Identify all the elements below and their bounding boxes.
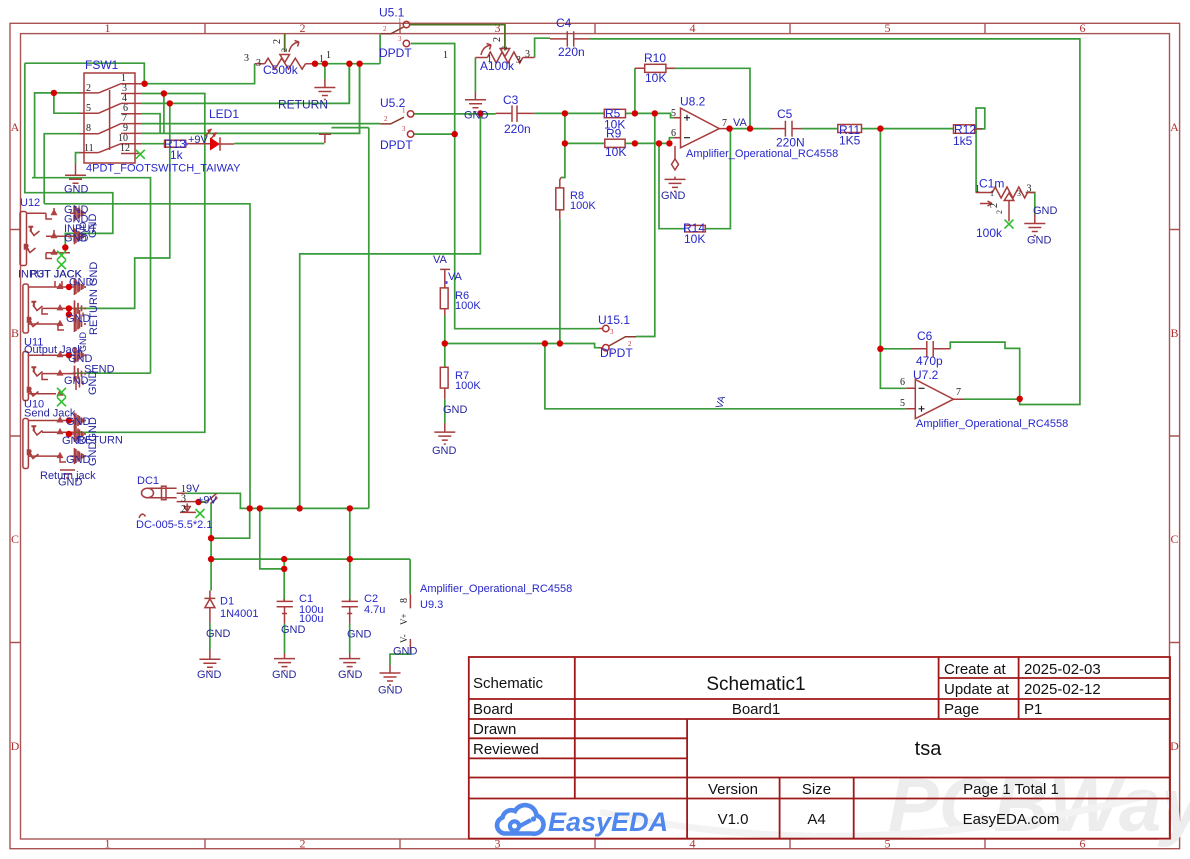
svg-text:GND: GND	[1027, 235, 1052, 247]
wire FSW1 pin11 to GND	[76, 153, 81, 164]
capacitor C5	[771, 121, 802, 137]
svg-text:VA: VA	[448, 271, 463, 283]
wire U5.1 pin3 net to U15.1 pin3	[411, 44, 599, 329]
jack U10	[23, 348, 83, 401]
resistor R8	[556, 188, 564, 210]
svg-text:VA: VA	[714, 394, 728, 409]
svg-text:GND: GND	[66, 313, 91, 325]
potentiometer C500k	[255, 58, 315, 69]
svg-text:T: T	[32, 427, 36, 433]
FSW1 right pin stubs	[121, 84, 141, 154]
svg-text:100K: 100K	[455, 300, 481, 312]
svg-text:VA: VA	[433, 254, 448, 266]
svg-text:2: 2	[300, 21, 306, 35]
svg-text:C6: C6	[917, 329, 933, 343]
wire FSW1 pin10 to R13	[141, 143, 165, 145]
svg-text:Create at: Create at	[944, 661, 1007, 678]
svg-text:+9V: +9V	[197, 495, 218, 507]
wire U5.2 pin3 stub	[414, 133, 455, 135]
wire input row y=204 to +9V rail	[44, 204, 250, 509]
svg-text:EasyEDA: EasyEDA	[548, 807, 668, 837]
resistor R11	[838, 125, 862, 133]
op-amp U8.2	[681, 108, 720, 148]
wire D1 lower / GND segments	[210, 623, 350, 654]
svg-text:Board: Board	[473, 701, 513, 718]
svg-text:GND: GND	[464, 110, 489, 122]
svg-text:100K: 100K	[570, 200, 596, 212]
svg-text:2: 2	[383, 25, 387, 33]
svg-text:U7.2: U7.2	[913, 368, 939, 382]
svg-text:1: 1	[398, 17, 402, 25]
svg-text:A: A	[11, 120, 20, 134]
wire C5 right to R11	[801, 128, 838, 130]
RETURN GND symbol under C500k	[314, 79, 335, 100]
wire pin4 branch down to U11 tip	[73, 103, 170, 308]
svg-text:T: T	[32, 302, 36, 308]
op-amp U7.2	[915, 380, 953, 419]
VA net flag at R6	[440, 269, 450, 271]
svg-text:6: 6	[900, 377, 905, 388]
wire U5.2 pin1 to C3	[414, 113, 496, 115]
svg-text:220n: 220n	[504, 122, 531, 136]
svg-text:U8.2: U8.2	[680, 95, 706, 109]
frame ticks right	[1170, 230, 1180, 643]
capacitor C1	[277, 599, 293, 624]
svg-text:4.7u: 4.7u	[364, 604, 385, 616]
svg-text:4PDT_FOOTSWITCH_TAIWAY: 4PDT_FOOTSWITCH_TAIWAY	[86, 163, 241, 175]
resistor R5	[604, 109, 625, 117]
svg-text:100k: 100k	[976, 226, 1003, 240]
svg-text:GND: GND	[338, 669, 363, 681]
frame ticks top	[205, 23, 985, 33]
LED1 leads and emission arrows	[199, 137, 234, 151]
svg-text:1: 1	[443, 50, 448, 61]
svg-text:Amplifier_Operational_RC4558: Amplifier_Operational_RC4558	[420, 583, 572, 595]
svg-text:7: 7	[956, 387, 961, 398]
GND symbol R7	[434, 423, 455, 444]
wire R10 right to U8.2 output node	[666, 68, 750, 128]
svg-text:1: 1	[975, 184, 980, 195]
svg-text:A100k: A100k	[480, 59, 515, 73]
svg-text:1: 1	[610, 347, 614, 355]
wire FSW1 pin3 row down-left rail to RETURN jack	[73, 94, 205, 433]
svg-text:D: D	[11, 739, 20, 753]
svg-text:D1: D1	[220, 596, 234, 608]
svg-text:A: A	[1170, 120, 1179, 134]
switch U15.1	[603, 325, 637, 351]
svg-text:1: 1	[105, 21, 111, 35]
svg-text:DPDT: DPDT	[380, 138, 413, 152]
svg-text:VA: VA	[733, 117, 748, 129]
svg-text:DPDT: DPDT	[600, 346, 633, 360]
wire FSW1 pin6 link to pin9	[141, 114, 160, 134]
svg-text:470p: 470p	[916, 354, 943, 368]
svg-text:2025-02-03: 2025-02-03	[1024, 661, 1101, 678]
svg-text:FSW1: FSW1	[85, 58, 119, 72]
+9V flag	[207, 494, 218, 504]
svg-text:3: 3	[244, 53, 249, 64]
no-connect X marks	[57, 150, 1014, 518]
wire C4 output loop to U7.2	[590, 39, 1080, 405]
svg-text:C500k: C500k	[263, 63, 299, 77]
wire R6/R7 node row to U15.1 pin1	[445, 344, 599, 348]
wire FSW1 pin8 down to wire1	[44, 134, 80, 204]
svg-text:U9.3: U9.3	[420, 599, 443, 611]
DC1 barrel connector	[142, 488, 154, 498]
svg-text:2: 2	[300, 837, 306, 851]
wire C1m pin3 to GND	[1030, 193, 1035, 215]
svg-text:3: 3	[525, 49, 530, 60]
svg-text:GND: GND	[1033, 205, 1058, 217]
wire FSW1 pin7 row to U5.2 pin2	[141, 123, 380, 125]
svg-text:2: 2	[492, 37, 503, 42]
svg-text:3: 3	[610, 328, 614, 336]
svg-text:GND: GND	[378, 685, 403, 697]
svg-text:220n: 220n	[558, 45, 585, 59]
svg-text:GND: GND	[64, 184, 89, 196]
wire FSW1 pin4 row (RETURN)	[141, 64, 349, 104]
svg-text:Page 1 Total 1: Page 1 Total 1	[963, 781, 1059, 798]
GND symbol A100k	[465, 92, 486, 112]
svg-text:B: B	[1170, 326, 1178, 340]
svg-text:GND: GND	[62, 435, 87, 447]
A100k curl arrow	[481, 44, 491, 56]
resistor R13	[165, 140, 186, 147]
svg-text:U12: U12	[20, 197, 40, 209]
svg-text:6: 6	[1080, 21, 1086, 35]
capacitor C3	[496, 105, 535, 122]
svg-text:GND: GND	[87, 214, 99, 239]
svg-text:5: 5	[671, 108, 676, 119]
GND symbol C1m	[1024, 215, 1045, 236]
svg-text:2: 2	[86, 83, 91, 94]
svg-text:1N4001: 1N4001	[220, 608, 259, 620]
resistor R7	[440, 367, 448, 388]
svg-text:Page: Page	[944, 701, 979, 718]
LED emission arrowheads	[207, 129, 217, 137]
EasyEDA logo	[497, 805, 668, 837]
svg-text:Version: Version	[708, 781, 758, 798]
svg-text:Reviewed: Reviewed	[473, 741, 539, 758]
svg-text:T: T	[29, 227, 33, 233]
wire RETURN net label wire	[348, 64, 350, 104]
svg-text:1k: 1k	[170, 148, 184, 162]
diode D1	[204, 591, 215, 623]
svg-text:C5: C5	[777, 107, 793, 121]
svg-text:10K: 10K	[684, 232, 705, 246]
svg-text:3: 3	[1027, 184, 1032, 195]
svg-text:V-: V-	[399, 634, 409, 643]
svg-text:220N: 220N	[776, 136, 805, 150]
GND symbol D1	[199, 650, 220, 672]
resistor R9	[605, 139, 625, 147]
GND symbol U9.3	[380, 673, 401, 685]
svg-text:8: 8	[399, 598, 410, 603]
svg-text:DPDT: DPDT	[379, 46, 412, 60]
svg-text:RETURN: RETURN	[278, 98, 328, 112]
svg-text:5: 5	[900, 398, 905, 409]
wire +9V rail from DC1	[186, 128, 369, 509]
svg-text:2: 2	[280, 48, 289, 52]
wire node down to C6	[879, 129, 881, 349]
svg-text:5: 5	[885, 21, 891, 35]
wire R11 right to R12	[862, 128, 954, 130]
svg-text:3: 3	[398, 35, 402, 43]
title block	[469, 657, 1170, 839]
wire C1 branch	[260, 508, 284, 601]
svg-text:2: 2	[995, 210, 1004, 214]
wire R9 left down to R8	[561, 143, 565, 177]
wire C3 right to R5	[534, 112, 604, 114]
capacitor C2	[342, 599, 358, 624]
wire DC1 pin3 to +9V flag (dark)	[199, 501, 207, 503]
wire FSW1 pin1 loop to C500k pin3	[25, 63, 255, 83]
FSW1 left pin stubs	[80, 93, 99, 153]
LED1 body	[210, 138, 220, 151]
footswitch FSW1 body	[84, 73, 135, 163]
svg-text:GND: GND	[78, 222, 88, 243]
svg-text:2: 2	[628, 340, 632, 348]
svg-text:2025-02-12: 2025-02-12	[1024, 681, 1101, 698]
svg-text:7: 7	[722, 118, 727, 129]
svg-text:R: R	[27, 451, 32, 457]
svg-text:DC-005-5.5*2.1: DC-005-5.5*2.1	[136, 519, 212, 531]
wire C500k wiper riser (dark)	[284, 34, 286, 52]
capacitor C4	[550, 31, 590, 46]
wire R5/R9 left link	[565, 113, 605, 143]
svg-text:V+: V+	[399, 613, 409, 625]
svg-text:Schematic: Schematic	[473, 675, 544, 692]
svg-text:10K: 10K	[645, 71, 666, 85]
wire C6 left	[880, 348, 911, 350]
svg-text:P1: P1	[1024, 701, 1042, 718]
wire U7.2 pin6	[880, 349, 906, 389]
svg-text:1: 1	[990, 189, 994, 198]
FSW1 link bar	[109, 90, 111, 150]
frame ticks bottom	[205, 839, 985, 849]
svg-text:B: B	[11, 326, 19, 340]
wire C6 right jog to output	[950, 342, 1019, 399]
jack U12	[20, 206, 83, 266]
svg-text:GND: GND	[432, 445, 457, 457]
svg-text:DC1: DC1	[137, 475, 159, 487]
svg-text:1: 1	[319, 54, 324, 65]
jack Return	[23, 414, 83, 479]
svg-text:V1.0: V1.0	[718, 811, 749, 828]
svg-text:R9: R9	[606, 127, 622, 141]
svg-text:Drawn: Drawn	[473, 721, 516, 738]
frame ticks left	[10, 230, 21, 643]
wire R12 jog to C1m	[975, 108, 985, 193]
svg-text:1: 1	[487, 54, 492, 65]
resistor R12	[954, 125, 975, 134]
svg-text:GND: GND	[64, 375, 89, 387]
jack contact arrows	[51, 209, 64, 458]
wire U9.3 V- to GND	[390, 651, 410, 666]
svg-text:GND: GND	[393, 646, 418, 658]
svg-text:9V: 9V	[186, 483, 200, 495]
svg-text:tsa: tsa	[915, 738, 943, 760]
svg-text:3: 3	[256, 58, 261, 69]
svg-text:2: 2	[181, 504, 186, 515]
svg-text:GND: GND	[661, 190, 686, 202]
wire mystery VA branch to +9V riser	[332, 127, 369, 129]
switch U5.2	[380, 111, 414, 138]
potentiometer A100k	[475, 52, 534, 63]
C500k curl arrow	[289, 41, 299, 53]
VA net flag at LED	[319, 134, 331, 143]
svg-text:C: C	[1170, 532, 1178, 546]
wire SEND row from jack U10	[73, 372, 151, 374]
wire FSW1 pin9 row to C500k node	[141, 64, 360, 134]
svg-text:Update at: Update at	[944, 681, 1010, 698]
FSW1 pole blades	[99, 84, 121, 153]
svg-text:+9V: +9V	[188, 134, 209, 146]
wire C500k node to pot leads and taps	[315, 34, 381, 79]
svg-text:3: 3	[181, 494, 186, 505]
svg-text:GND: GND	[197, 669, 222, 681]
wire pin6 node down to R14	[659, 143, 685, 228]
svg-text:1k5: 1k5	[953, 134, 973, 148]
resistor R6	[440, 288, 448, 309]
svg-text:2: 2	[384, 115, 388, 123]
GND symbol C2	[339, 654, 360, 671]
svg-text:T: T	[32, 368, 36, 374]
U9.3 power pins V+ V-	[390, 594, 410, 673]
svg-text:12: 12	[120, 143, 130, 154]
svg-text:1: 1	[326, 50, 331, 61]
svg-text:Schematic1: Schematic1	[706, 674, 805, 695]
svg-text:GND: GND	[87, 371, 99, 396]
svg-text:2: 2	[989, 203, 1000, 208]
svg-text:LED1: LED1	[209, 107, 239, 121]
switch U5.1	[381, 21, 410, 46]
svg-text:1K5: 1K5	[839, 134, 861, 148]
wire R7 bottom to GND	[444, 399, 446, 423]
svg-text:Amplifier_Operational_RC4558: Amplifier_Operational_RC4558	[916, 418, 1068, 430]
svg-text:1: 1	[402, 107, 406, 115]
wire FSW1 pin5 branch	[54, 93, 81, 113]
wire VA long to U7.2 pin5	[545, 344, 906, 409]
wire U5.2 feed riser from C500k node	[359, 64, 361, 134]
svg-text:C4: C4	[556, 16, 572, 30]
svg-text:U15.1: U15.1	[598, 313, 630, 327]
svg-text:R10: R10	[644, 51, 666, 65]
wire R9 right to U8.2 pin6	[625, 138, 680, 144]
svg-text:3: 3	[402, 125, 406, 133]
jack U11	[23, 280, 83, 333]
wire LED1 cathode to VA flag	[234, 143, 324, 145]
capacitor C6	[911, 341, 950, 357]
wire third row +9V dist	[211, 559, 410, 594]
GND symbol U8.2	[665, 179, 686, 191]
svg-text:Board1: Board1	[732, 701, 780, 718]
wire pin3 branch down to pin9 row	[163, 94, 165, 134]
resistor R14	[685, 225, 706, 232]
GND symbol FSW1	[65, 164, 86, 187]
wire A100k pin1 to GND	[474, 58, 476, 93]
svg-text:C: C	[11, 532, 19, 546]
wire R6 bottom / R7 top	[444, 316, 446, 368]
C1m arrow	[980, 201, 992, 206]
svg-text:4: 4	[690, 21, 696, 35]
wire R14 right to output node	[705, 129, 730, 229]
svg-text:3: 3	[1017, 189, 1021, 198]
svg-text:Size: Size	[802, 781, 831, 798]
svg-text:R: R	[27, 388, 32, 394]
wire DC1 second row	[211, 503, 250, 591]
wire far-left chain pin1-net down to U12 area	[25, 63, 113, 247]
svg-text:2: 2	[272, 39, 283, 44]
wire R5 right to U8.2 pin5	[626, 113, 681, 117]
GND symbol C1	[274, 654, 295, 671]
U15.1 pin stubs	[599, 329, 603, 348]
wire R8 bottom to R6/R7 node row	[559, 219, 561, 344]
svg-text:C3: C3	[503, 93, 519, 107]
svg-text:GND: GND	[58, 477, 83, 489]
svg-text:3: 3	[495, 21, 501, 35]
svg-text:5: 5	[86, 103, 91, 114]
wire U5.1 pin1 to A100k wiper (dark)	[410, 25, 505, 51]
svg-text:R: R	[27, 318, 32, 324]
U8.2 power diamond	[672, 159, 679, 170]
resistor R10	[645, 64, 666, 72]
wire A100k pin3 up to C4	[535, 38, 550, 57]
svg-text:GND: GND	[281, 624, 306, 636]
wire C2 branch	[349, 508, 351, 601]
wire U8.2 out to C5	[730, 128, 771, 130]
svg-text:GND: GND	[443, 404, 468, 416]
wire FSW1 pin2 to left rail	[32, 93, 151, 373]
svg-text:R: R	[24, 245, 29, 251]
svg-text:10K: 10K	[605, 145, 626, 159]
svg-text:Amplifier_Operational_RC4558: Amplifier_Operational_RC4558	[686, 148, 838, 160]
svg-text:3: 3	[516, 55, 521, 66]
wire GND-node branch down to +9V riser at 299.7	[300, 113, 481, 508]
svg-text:1: 1	[105, 837, 111, 851]
wire U7.2 out	[964, 398, 1020, 400]
svg-text:GND: GND	[206, 628, 231, 640]
svg-text:8: 8	[86, 123, 91, 134]
svg-text:GND: GND	[272, 669, 297, 681]
svg-text:EasyEDA.com: EasyEDA.com	[963, 811, 1060, 828]
jack GND symbol stacks	[75, 205, 86, 464]
wire R10 left riser	[634, 68, 636, 113]
svg-text:GNDGND: GNDGND	[87, 417, 99, 466]
svg-text:GND: GND	[347, 629, 372, 641]
svg-text:11: 11	[84, 143, 94, 154]
svg-text:A4: A4	[807, 811, 825, 828]
svg-text:2: 2	[500, 46, 509, 50]
svg-text:6: 6	[671, 128, 676, 139]
wire node to U15.1 pin2	[636, 113, 655, 336]
potentiometer C1m	[976, 187, 1035, 198]
svg-text:100K: 100K	[455, 380, 481, 392]
svg-text:D: D	[1170, 739, 1179, 753]
